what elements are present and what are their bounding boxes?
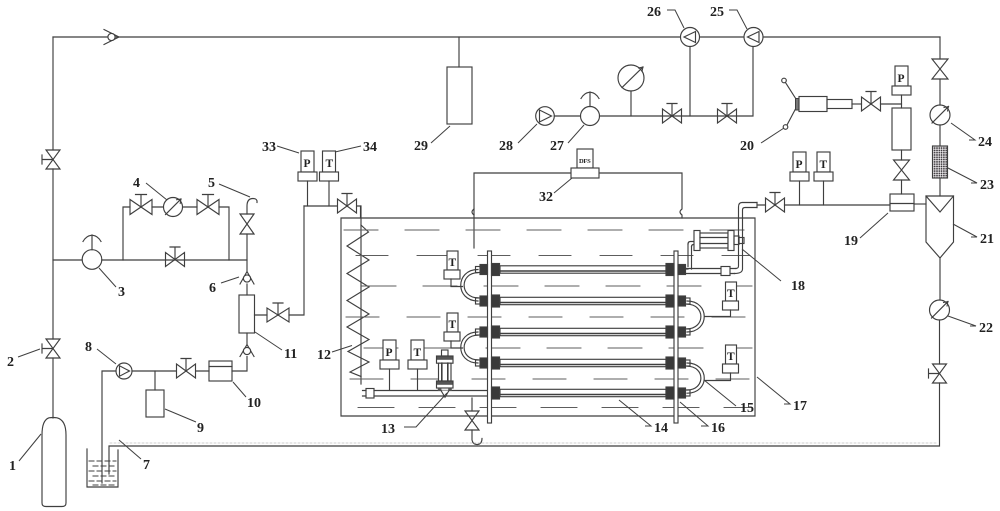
leader 4 [146, 183, 167, 200]
wire pump26 drop [689, 47, 691, 117]
leader 3 [99, 268, 116, 287]
svg-text:15: 15 [740, 401, 754, 416]
svg-text:34: 34 [363, 140, 377, 155]
regulator 24 [930, 105, 950, 125]
svg-text:T: T [326, 158, 334, 170]
water level dashes [344, 230, 752, 408]
tube row 3 [476, 326, 691, 338]
svg-text:25: 25 [710, 5, 724, 20]
tube row 4 [476, 357, 691, 369]
wire bypass loop [123, 207, 229, 260]
pump 8 [116, 363, 132, 379]
plate 16 left [488, 251, 492, 423]
wire pump3 to loop main line [102, 259, 247, 261]
leader 27 [568, 125, 584, 143]
wire box19 to separator [914, 203, 926, 205]
svg-text:3: 3 [118, 285, 125, 300]
sensor T 34 [320, 151, 339, 206]
svg-text:4: 4 [133, 176, 140, 191]
vessel 29 [447, 37, 472, 124]
leader 24 [951, 123, 975, 140]
leader 5 [219, 184, 250, 197]
svg-text:P: P [386, 347, 393, 359]
svg-text:24: 24 [978, 135, 992, 150]
valve 2 [42, 339, 60, 358]
leader 18 [742, 249, 781, 281]
plate right [674, 251, 678, 423]
check valve top-left [104, 30, 119, 45]
wire box10 to valve to pump8 [132, 370, 209, 372]
svg-text:T: T [449, 257, 457, 269]
svg-text:22: 22 [979, 321, 993, 336]
leader 26 [667, 10, 684, 28]
sensor P (gun line) [892, 66, 911, 108]
box 19 [890, 194, 914, 211]
leader 29 [431, 126, 450, 143]
valve right of gun [862, 92, 881, 112]
svg-text:16: 16 [711, 421, 725, 436]
valve right of 11 [267, 303, 289, 322]
leader 15 [704, 380, 736, 406]
tank lid [472, 173, 682, 218]
svg-text:18: 18 [791, 279, 805, 294]
leader 23 [948, 168, 977, 183]
check valve 6 [240, 272, 254, 285]
wire cylinder to check below [246, 333, 248, 344]
leader 34 [335, 146, 361, 152]
separator 21 [926, 196, 954, 258]
valve below hook [240, 214, 254, 234]
wire line valve11 to riser [255, 206, 305, 315]
wire left vertical between valves [52, 169, 54, 339]
leader 19 [860, 213, 888, 238]
svg-text:21: 21 [980, 232, 994, 247]
cylinder 11 [239, 295, 255, 333]
sensor T bend L2 [444, 313, 463, 348]
svg-text:P: P [304, 158, 311, 170]
wire bottom return shadow [110, 442, 938, 444]
leader 1 [19, 434, 41, 461]
hose bend left tubes 3-4 [461, 332, 478, 363]
svg-text:DFS: DFS [579, 158, 591, 165]
svg-text:1: 1 [9, 459, 16, 474]
flow regulator 4 [164, 198, 183, 217]
valve near pump 8 [177, 359, 196, 379]
right column from top [939, 37, 941, 59]
wire top main line [53, 36, 940, 38]
svg-text:T: T [449, 319, 457, 331]
column above valve [892, 108, 911, 150]
svg-text:27: 27 [550, 139, 564, 154]
pump 25 [744, 28, 763, 47]
leader 28 [518, 124, 537, 143]
pump 28 [536, 107, 555, 126]
DFS sensor 32 [571, 149, 599, 178]
wire manifold to tank valve [304, 206, 361, 218]
valve V-left-top (on left riser) [42, 150, 60, 169]
filter 23 [933, 146, 948, 178]
wire left vertical from top to valve [52, 37, 54, 150]
check valve below 11 [240, 345, 254, 357]
svg-text:19: 19 [844, 234, 858, 249]
pump 3 [82, 235, 102, 269]
svg-text:T: T [820, 159, 828, 171]
wire gun line to column [881, 103, 902, 105]
leader 11 [255, 332, 282, 350]
pressure gauge [618, 65, 644, 116]
sensor P (tank bottom) [380, 340, 399, 390]
regulator 27 [581, 92, 600, 126]
leader 32 [554, 178, 572, 193]
valve on loop left [130, 195, 152, 215]
valve vertical above 19 [894, 160, 910, 180]
leader 33 [277, 146, 299, 153]
control valve 13 [437, 350, 454, 397]
box 10 [209, 361, 232, 381]
svg-text:P: P [796, 159, 803, 171]
wire column to valve [901, 150, 903, 160]
svg-text:T: T [727, 288, 735, 300]
regulator 22 [930, 300, 950, 320]
pump 26 [681, 28, 700, 47]
plasma gun 20 [782, 78, 862, 129]
sensor T bend R1 [705, 282, 739, 317]
svg-text:6: 6 [209, 281, 216, 296]
heat exchange tubes 14 [476, 264, 691, 400]
valve tank outlet [766, 193, 785, 213]
device 18 [686, 231, 744, 270]
valve on loop right [197, 195, 219, 215]
sensor T (outlet) [814, 152, 833, 205]
leader 25 [729, 10, 747, 29]
wire check to box10 [232, 357, 247, 372]
wire left vertical to cylinder [52, 358, 54, 418]
svg-text:5: 5 [208, 176, 215, 191]
pipe tank outlet riser [686, 203, 766, 276]
gas cylinder 1 [42, 418, 66, 507]
svg-text:7: 7 [143, 458, 150, 473]
leader 7 [119, 440, 141, 459]
sensor P 33 [298, 151, 317, 206]
wire pump8 to beaker [102, 371, 116, 483]
leader 8 [97, 349, 116, 364]
valve on main line below loop [166, 247, 185, 267]
sensor T bend L1 [444, 251, 463, 287]
svg-text:12: 12 [317, 348, 331, 363]
leader 22 [948, 316, 976, 326]
leader 13 [404, 393, 447, 427]
svg-text:T: T [414, 347, 422, 359]
wire outlet line to box 19 [785, 204, 891, 206]
svg-text:10: 10 [247, 396, 261, 411]
svg-text:20: 20 [740, 139, 754, 154]
leader 20 [761, 128, 784, 143]
zigzag heater 12 [360, 206, 362, 384]
valve bottom right [929, 364, 947, 383]
hose bend right tubes 2-3 15 [687, 301, 704, 332]
tube row 1 [476, 264, 686, 276]
svg-text:P: P [898, 73, 905, 85]
leader 6 [221, 277, 239, 283]
svg-text:28: 28 [499, 139, 513, 154]
svg-text:17: 17 [793, 399, 807, 414]
box 9 [146, 390, 164, 417]
svg-text:8: 8 [85, 340, 92, 355]
leader 16 [680, 402, 708, 426]
tube row 2 [476, 295, 691, 307]
valve tank inlet [338, 194, 357, 214]
svg-text:29: 29 [414, 139, 428, 154]
leader 21 [953, 224, 977, 237]
svg-text:32: 32 [539, 190, 553, 205]
svg-text:2: 2 [7, 355, 14, 370]
hose bend right tubes 4-5 [687, 363, 704, 393]
sensor T bend R2 [705, 345, 739, 381]
svg-text:26: 26 [647, 5, 661, 20]
svg-text:T: T [727, 351, 735, 363]
hook item 5 [247, 199, 257, 215]
svg-text:13: 13 [381, 422, 395, 437]
inlet pipe bottom (tube5 extension) [363, 389, 489, 399]
svg-text:14: 14 [654, 421, 668, 436]
beaker 7 [87, 449, 118, 487]
tank 17 outline [341, 218, 755, 416]
svg-text:9: 9 [197, 421, 204, 436]
beaker water [89, 461, 116, 485]
hose bend left tubes 1-2 [461, 270, 478, 302]
wire branch to box 9 [154, 371, 156, 390]
wire pump3 feed line [53, 259, 82, 261]
svg-text:23: 23 [980, 178, 994, 193]
wire check to cylinder 11 [246, 284, 248, 295]
drain below tank [465, 398, 482, 445]
leader 14 [619, 400, 651, 426]
valve right top [932, 59, 948, 79]
leader 12 [332, 346, 352, 353]
valve y116 left [663, 104, 682, 124]
leader 9 [165, 409, 196, 422]
svg-text:33: 33 [262, 140, 276, 155]
leader 17 [757, 377, 790, 404]
leader 10 [233, 382, 246, 397]
wire bottom return line [109, 383, 940, 474]
tube row 5 [492, 387, 691, 399]
wire line y116 [554, 47, 753, 117]
sensor T (tank bottom) [408, 340, 427, 390]
wire valve to junction [246, 234, 248, 271]
svg-text:11: 11 [284, 347, 297, 362]
leader 2 [18, 349, 40, 357]
valve y116 right [718, 104, 737, 124]
sensor P (outlet) [790, 152, 809, 205]
